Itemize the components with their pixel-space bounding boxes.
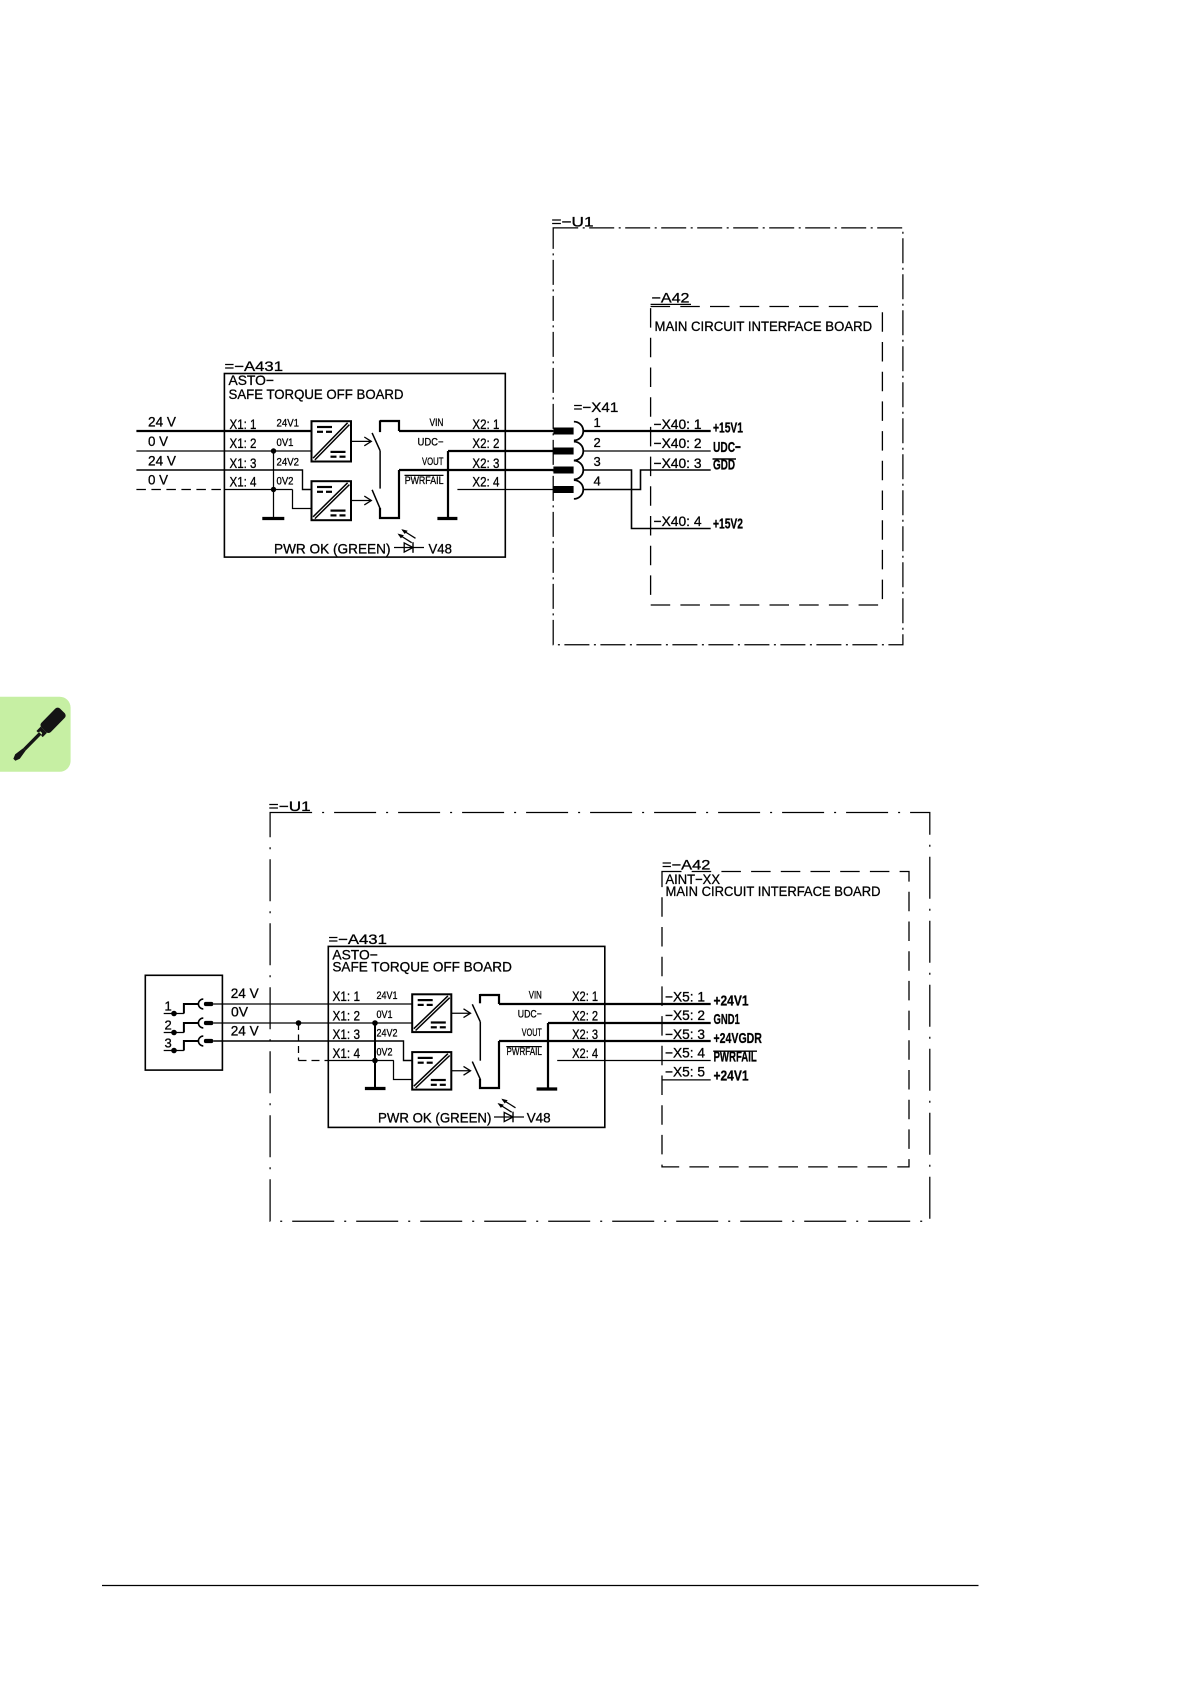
svg-text:X1: 2: X1: 2	[230, 435, 257, 451]
external connector pin 2	[164, 1018, 214, 1036]
net label +15V2	[713, 516, 743, 533]
label AINT-XX	[666, 871, 721, 887]
svg-text:24 V: 24 V	[148, 414, 177, 430]
DC/DC converter U-b (bottom)	[412, 1052, 451, 1090]
connector X41 pin 4	[553, 473, 601, 499]
terminal label X2:4 (top)	[472, 474, 499, 490]
label V48 (top)	[429, 540, 453, 556]
svg-text:X1: 4: X1: 4	[333, 1045, 361, 1061]
external connector pin 3	[164, 1036, 214, 1054]
ground (top A431 left)	[262, 517, 284, 520]
terminal label -X5:4	[665, 1045, 705, 1061]
net label +24V1 (X5:5)	[714, 1068, 749, 1085]
terminal stub -X5:5	[662, 1079, 711, 1081]
svg-text:4: 4	[594, 473, 602, 488]
svg-text:0 V: 0 V	[148, 433, 169, 449]
terminal label X2:2 (bottom)	[572, 1007, 598, 1023]
board outline -A42 (bottom, dashed border)	[662, 872, 909, 1167]
svg-text:−A42: −A42	[652, 290, 690, 306]
wire X41:4 to -X40:3 (GDD)	[583, 470, 710, 490]
label =-U1 (top)	[552, 213, 594, 229]
net label 0V2 (bottom)	[377, 1047, 393, 1059]
svg-text:−X40: 4: −X40: 4	[654, 513, 702, 529]
junction node 0V1 (top)	[271, 448, 276, 453]
connector label =-X41	[574, 399, 619, 415]
terminal label X2:2 (top)	[472, 435, 499, 451]
wire X41:2 to -X40:2 (UDC-)	[583, 450, 710, 452]
svg-text:3: 3	[594, 454, 602, 469]
connector X41 pin 2	[553, 435, 601, 461]
terminal label -X40:3	[654, 455, 702, 471]
wire VOUT X2:3 to -X5:3 (bottom)	[499, 1040, 711, 1042]
terminal label -X5:5	[665, 1064, 705, 1080]
svg-text:=−U1: =−U1	[269, 798, 311, 814]
net label VOUT (top)	[422, 456, 444, 468]
svg-text:MAIN CIRCUIT INTERFACE BOAR: MAIN CIRCUIT INTERFACE BOARD	[666, 884, 881, 900]
terminal label X1:3 (bottom)	[333, 1026, 361, 1042]
safety switch contact K2 (bottom)	[472, 1041, 499, 1088]
terminal label X1:4 (top)	[230, 474, 257, 490]
safety switch contact K1 (top)	[372, 420, 399, 450]
board outline -A42 (top, dashed border)	[651, 307, 883, 606]
actuator arrow from converter U-a (top)	[351, 437, 371, 446]
wire pin1 24 V to X1:1 (bottom)	[213, 1003, 412, 1005]
wire VIN X2:1 to -X5:1 (bottom)	[499, 1003, 711, 1005]
svg-text:V48: V48	[527, 1110, 551, 1126]
svg-text:X2: 1: X2: 1	[572, 988, 598, 1004]
wire UDC- X2:2 to -X5:2 (bottom)	[548, 1022, 711, 1024]
svg-text:−X40: 3: −X40: 3	[654, 455, 702, 471]
label 0V (bottom row 2)	[231, 1004, 249, 1020]
wire 0 V supply to X1:4 (top, dashed outside board)	[136, 490, 311, 509]
svg-text:0V2: 0V2	[377, 1047, 393, 1059]
wire VOUT X2:3 (top)	[399, 469, 553, 471]
svg-text:2: 2	[165, 1018, 173, 1033]
board outline =-A431 (top)	[224, 374, 505, 558]
net label UDC- (top)	[418, 436, 444, 448]
enclosure box =-U1 (top diagram, dash-dot border)	[553, 228, 903, 645]
svg-text:−X5: 4: −X5: 4	[665, 1045, 705, 1061]
terminal label -X5:1	[665, 988, 705, 1004]
svg-text:0V2: 0V2	[277, 476, 294, 488]
note icon (green rounded square with screwdriver)	[0, 697, 71, 772]
svg-text:0 V: 0 V	[148, 471, 169, 487]
external connector pin 1	[164, 999, 214, 1017]
actuator arrow from converter U-a (bottom)	[451, 1009, 470, 1018]
footer rule	[102, 1585, 979, 1587]
svg-text:X2: 2: X2: 2	[472, 435, 499, 451]
net label 24V1 (top)	[277, 418, 300, 430]
wire PWRFAIL X2:4 (top)	[457, 489, 553, 491]
svg-text:VOUT: VOUT	[422, 456, 444, 468]
board outline =-A431 (bottom)	[328, 946, 605, 1127]
svg-text:=−A431: =−A431	[328, 931, 387, 947]
net label VIN (bottom)	[529, 989, 542, 1001]
net label VOUT (bottom)	[522, 1027, 542, 1039]
svg-text:24V2: 24V2	[377, 1028, 398, 1040]
svg-text:PWRFAIL: PWRFAIL	[507, 1046, 542, 1058]
svg-text:24V2: 24V2	[277, 457, 300, 469]
label 24 V (bottom row 1)	[231, 985, 260, 1001]
wire pin2 0V to X1:2 (bottom)	[213, 1022, 412, 1024]
actuator arrow from converter U-b (top)	[351, 496, 371, 505]
svg-text:SAFE TORQUE OFF BOARD: SAFE TORQUE OFF BOARD	[332, 958, 512, 974]
svg-text:X2: 1: X2: 1	[472, 416, 499, 432]
svg-text:X1: 4: X1: 4	[230, 474, 257, 490]
LED V48 (bottom)	[494, 1099, 524, 1123]
label 24 V (top row 1)	[148, 414, 177, 430]
net label UDC- (bottom)	[518, 1009, 542, 1021]
net label GND1	[714, 1011, 740, 1028]
svg-text:24V1: 24V1	[277, 418, 300, 430]
terminal label -X40:2	[654, 435, 702, 451]
svg-text:−X5: 3: −X5: 3	[665, 1026, 705, 1042]
wire 0V rail to ground (top)	[273, 451, 275, 519]
svg-text:+24V1: +24V1	[714, 992, 749, 1009]
wire 0 V supply to X1:2 (top)	[136, 450, 311, 452]
wire 24 V supply to X1:3 (top)	[136, 470, 311, 490]
ground (top A431 right)	[437, 517, 457, 520]
net label 0V1 (top)	[277, 437, 294, 449]
DC/DC converter U-a (top)	[312, 421, 352, 461]
wire switch link (top)	[379, 451, 381, 489]
svg-text:+15V1: +15V1	[713, 419, 743, 436]
terminal label X1:2 (top)	[230, 435, 257, 451]
svg-text:−X5: 5: −X5: 5	[665, 1064, 705, 1080]
LED V48 (top)	[394, 529, 424, 553]
svg-text:=−A42: =−A42	[662, 856, 711, 872]
svg-text:=−U1: =−U1	[552, 213, 594, 229]
connector X41 pin 3	[553, 454, 601, 480]
label =-A431 (bottom)	[328, 931, 387, 947]
svg-text:24V1: 24V1	[377, 990, 398, 1002]
wire switch link (bottom)	[479, 1022, 481, 1061]
wire pin3 24 V to X1:3 (bottom)	[213, 1041, 412, 1061]
junction node 0V tap (bottom)	[296, 1020, 302, 1026]
terminal label X2:3 (top)	[472, 455, 499, 471]
svg-text:2: 2	[594, 435, 602, 450]
net label PWRFAIL with overline (X5:4)	[713, 1049, 757, 1066]
svg-text:1: 1	[165, 999, 173, 1014]
label =-A431 (top)	[225, 358, 284, 374]
enclosure box =-U1 (bottom diagram, dash-dot border)	[270, 813, 930, 1222]
net label UDC- (board)	[713, 439, 741, 456]
label SAFE TORQUE OFF BOARD (top)	[229, 386, 404, 402]
terminal label X2:1 (bottom)	[572, 988, 598, 1004]
wire 0V rail to ground (bottom)	[374, 1023, 376, 1089]
svg-text:24 V: 24 V	[231, 985, 260, 1001]
svg-text:UDC−: UDC−	[418, 436, 444, 448]
svg-text:X2: 4: X2: 4	[572, 1045, 598, 1061]
net label 24V2 (bottom)	[377, 1028, 398, 1040]
svg-text:V48: V48	[429, 540, 453, 556]
svg-text:X2: 4: X2: 4	[472, 474, 499, 490]
wire 24 V supply to X1:1 (top)	[136, 430, 311, 432]
label =-U1 (bottom)	[269, 798, 311, 814]
junction node 0V2 (bottom)	[372, 1058, 378, 1064]
terminal label X1:1 (bottom)	[333, 988, 361, 1004]
ground (bottom A431 right)	[537, 1087, 558, 1090]
wire dashed 0V tap to X1:4 (bottom)	[299, 1023, 413, 1080]
net label PWRFAIL with overline (bottom)	[506, 1046, 542, 1058]
svg-text:=−X41: =−X41	[574, 399, 619, 415]
svg-text:X1: 3: X1: 3	[333, 1026, 361, 1042]
svg-text:−X5: 1: −X5: 1	[665, 988, 705, 1004]
wire UDC- X2:2 (top)	[448, 450, 553, 452]
svg-text:PWRFAIL: PWRFAIL	[405, 475, 444, 487]
safety switch contact K2 (top)	[372, 470, 399, 518]
label ASTO- (bottom)	[332, 946, 377, 962]
svg-text:X2: 3: X2: 3	[572, 1026, 598, 1042]
svg-text:24 V: 24 V	[231, 1022, 260, 1038]
label PWR OK (GREEN) (top)	[274, 540, 391, 556]
svg-text:X1: 1: X1: 1	[333, 988, 361, 1004]
svg-text:0V: 0V	[231, 1004, 249, 1020]
label 0 V (top row 4)	[148, 471, 169, 487]
terminal label X1:3 (top)	[230, 455, 257, 471]
label =-A42 (bottom)	[662, 856, 711, 872]
svg-text:+15V2: +15V2	[713, 516, 743, 533]
label 0 V (top row 2)	[148, 433, 169, 449]
svg-text:X1: 3: X1: 3	[230, 455, 257, 471]
svg-text:X2: 3: X2: 3	[472, 455, 499, 471]
wire X41:3 to -X40:4	[583, 470, 710, 529]
svg-text:0V1: 0V1	[277, 437, 294, 449]
svg-text:3: 3	[165, 1036, 173, 1051]
junction node 0V2 (top)	[271, 487, 276, 492]
net label +15V1	[713, 419, 743, 436]
svg-text:UDC−: UDC−	[518, 1009, 542, 1021]
terminal label X2:4 (bottom)	[572, 1045, 598, 1061]
wire UDC- rail to ground (top)	[447, 451, 449, 518]
net label VIN (top)	[430, 417, 444, 429]
terminal label X1:1 (top)	[230, 416, 257, 432]
wire PWRFAIL X2:4 to -X5:4 (bottom)	[557, 1060, 711, 1062]
svg-text:PWR OK (GREEN): PWR OK (GREEN)	[274, 540, 391, 556]
svg-text:1: 1	[594, 415, 602, 430]
svg-text:−X40: 1: −X40: 1	[654, 416, 702, 432]
svg-text:UDC−: UDC−	[713, 439, 741, 456]
net label GDD with overline	[713, 457, 737, 474]
net label 0V2 (top)	[277, 476, 294, 488]
svg-text:VOUT: VOUT	[522, 1027, 542, 1039]
svg-text:SAFE TORQUE OFF BOARD: SAFE TORQUE OFF BOARD	[229, 386, 404, 402]
svg-text:+24V1: +24V1	[714, 1068, 749, 1085]
svg-text:PWR OK (GREEN): PWR OK (GREEN)	[378, 1110, 491, 1126]
label MAIN CIRCUIT INTERFACE BOARD (bottom)	[666, 884, 881, 900]
label 24 V (bottom row 3)	[231, 1022, 260, 1038]
net label +24V1 (X5:1)	[714, 992, 749, 1009]
ground (bottom A431 left)	[365, 1087, 386, 1090]
safety switch contact K1 (bottom)	[472, 994, 499, 1022]
connector X41 pin 1	[553, 415, 601, 441]
net label 24V1 (bottom)	[377, 990, 398, 1002]
net label +24VGDR	[714, 1030, 763, 1047]
svg-text:X1: 1: X1: 1	[230, 416, 257, 432]
wire VIN X2:1 (top)	[399, 430, 553, 432]
svg-text:GND1: GND1	[714, 1011, 740, 1028]
svg-text:X1: 2: X1: 2	[333, 1007, 361, 1023]
svg-text:X2: 2: X2: 2	[572, 1007, 598, 1023]
net label 0V1 (bottom)	[377, 1009, 393, 1021]
label PWR OK (GREEN) (bottom)	[378, 1110, 491, 1126]
net label PWRFAIL with overline (top)	[405, 475, 444, 487]
terminal label X2:1 (top)	[472, 416, 499, 432]
svg-text:VIN: VIN	[529, 989, 542, 1001]
DC/DC converter U-a (bottom)	[412, 994, 451, 1032]
label ASTO- (top)	[229, 372, 274, 388]
DC/DC converter U-b (top)	[312, 481, 352, 520]
svg-text:−X5: 2: −X5: 2	[665, 1007, 705, 1023]
svg-text:24 V: 24 V	[148, 453, 177, 469]
terminal label X2:3 (bottom)	[572, 1026, 598, 1042]
actuator arrow from converter U-b (bottom)	[451, 1066, 470, 1075]
terminal label X1:2 (bottom)	[333, 1007, 361, 1023]
terminal label -X40:4	[654, 513, 702, 529]
svg-text:0V1: 0V1	[377, 1009, 393, 1021]
wire X41:1 to -X40:1 (+15V1)	[583, 430, 710, 432]
svg-text:MAIN CIRCUIT INTERFACE BOAR: MAIN CIRCUIT INTERFACE BOARD	[655, 319, 873, 335]
junction node 0V1 (bottom)	[372, 1020, 378, 1026]
external connector box (bottom left)	[145, 975, 222, 1070]
label MAIN CIRCUIT INTERFACE BOARD (top)	[655, 319, 873, 335]
wire UDC- rail to ground (bottom)	[547, 1023, 549, 1089]
label SAFE TORQUE OFF BOARD (bottom)	[332, 958, 512, 974]
net label 24V2 (top)	[277, 457, 300, 469]
label V48 (bottom)	[527, 1110, 551, 1126]
terminal label X1:4 (bottom)	[333, 1045, 361, 1061]
svg-text:+24VGDR: +24VGDR	[714, 1030, 763, 1047]
terminal label -X5:2	[665, 1007, 705, 1023]
svg-text:−X40: 2: −X40: 2	[654, 435, 702, 451]
terminal label -X40:1	[654, 416, 702, 432]
terminal label -X5:3	[665, 1026, 705, 1042]
label -A42 (top)	[651, 290, 691, 306]
label 24 V (top row 3)	[148, 453, 177, 469]
svg-text:VIN: VIN	[430, 417, 444, 429]
